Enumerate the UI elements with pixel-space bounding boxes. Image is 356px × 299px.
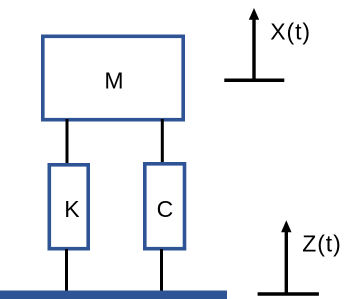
wire: M to K [66,119,69,165]
Z(t) axis baseline [258,292,319,296]
Z(t) axis arrow shaft [285,228,288,294]
svg-text:K: K [64,196,80,222]
wire: K to ground [65,249,68,292]
svg-text:Z(t): Z(t) [302,230,341,256]
svg-text:X(t): X(t) [270,18,311,44]
damper C [145,164,185,249]
Z(t) axis arrowhead [281,220,291,232]
ground bar [0,291,227,299]
X(t) axis arrow shaft [252,16,255,81]
svg-text:C: C [157,196,174,222]
X(t) axis baseline [224,79,284,83]
svg-text:M: M [104,68,123,94]
wire: C to ground [160,249,163,292]
X(t) axis arrowhead [249,8,259,20]
wire: M to C [161,119,164,164]
mass block M [43,36,183,119]
spring K [49,165,88,249]
